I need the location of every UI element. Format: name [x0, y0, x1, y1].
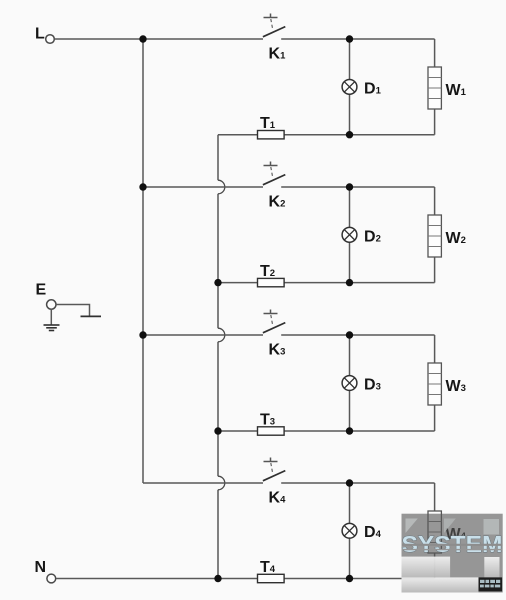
junction node N-bus/T3 — [214, 427, 221, 434]
wire K4 output — [281, 482, 434, 484]
svg-text:L: L — [35, 26, 45, 43]
wire K3 output — [281, 334, 434, 336]
junction node N-bus/T2 — [214, 279, 221, 286]
wire W2 drop — [434, 187, 436, 283]
wire T4 return — [56, 578, 435, 580]
fuse T3 — [258, 427, 285, 435]
lamp D2 — [342, 227, 357, 242]
terminal E — [47, 300, 56, 309]
wire hop (N bus crosses K4 feed) — [218, 476, 225, 490]
fuse T2 — [258, 278, 285, 286]
terminal N — [47, 574, 56, 583]
wire K2 output — [281, 186, 434, 188]
wire T2 return — [218, 282, 435, 284]
fuse T1 — [258, 131, 285, 139]
junction node L-bus/K2 — [139, 183, 146, 190]
wire D2 branch — [349, 187, 351, 283]
ground (earth symbol) — [44, 325, 60, 331]
lamp D4 — [342, 523, 357, 538]
junction node L-bus/K3 — [139, 331, 146, 338]
svg-text:N: N — [35, 559, 47, 576]
switch K2 — [263, 162, 285, 185]
heater W2 — [428, 215, 441, 257]
junction node D2 bottom — [346, 279, 353, 286]
junction node L-bus/K1 — [139, 35, 146, 42]
junction node D1 bottom — [346, 131, 353, 138]
terminal L — [46, 35, 55, 44]
heater W4 — [428, 511, 441, 553]
lamp D3 — [342, 376, 357, 391]
junction node D3 top — [346, 331, 353, 338]
junction node D2 top — [346, 183, 353, 190]
wire W3 drop — [434, 335, 436, 431]
heater W1 — [428, 67, 441, 109]
switch K4 — [263, 458, 285, 481]
lamp D1 — [342, 79, 357, 94]
wire D4 branch — [349, 483, 351, 579]
wire T1 return — [218, 134, 435, 136]
junction node N-bus/T4 — [214, 575, 221, 582]
wire K3 feed — [143, 334, 263, 336]
wire K1 feed — [55, 38, 264, 40]
junction node D4 bottom — [346, 575, 353, 582]
wire K4 feed — [143, 482, 263, 484]
junction node D1 top — [346, 35, 353, 42]
wire T3 return — [218, 430, 435, 432]
watermark SYSTEM logo — [402, 514, 503, 593]
wire W4 drop — [434, 483, 436, 579]
heater W3 — [428, 363, 441, 405]
junction node D3 bottom — [346, 427, 353, 434]
wire W1 drop — [434, 39, 436, 135]
fuse T4 — [258, 574, 285, 582]
chassis bar (frame connection) — [81, 315, 102, 317]
switch K1 — [263, 14, 285, 37]
wire N bus (fuse return vertical) — [217, 135, 219, 579]
wire hop (N bus crosses K2 feed) — [218, 180, 225, 194]
wire K2 feed — [143, 186, 263, 188]
wire hop (N bus crosses K3 feed) — [218, 328, 225, 342]
svg-text:E: E — [36, 282, 47, 299]
junction node D4 top — [346, 479, 353, 486]
wire E to chassis — [56, 305, 90, 317]
wire D3 branch — [349, 335, 351, 431]
wire E down — [50, 309, 52, 325]
switch K3 — [263, 310, 285, 333]
wire D1 branch — [349, 39, 351, 135]
wire L bus (left vertical) — [142, 39, 144, 483]
wire K1 output — [281, 38, 434, 40]
